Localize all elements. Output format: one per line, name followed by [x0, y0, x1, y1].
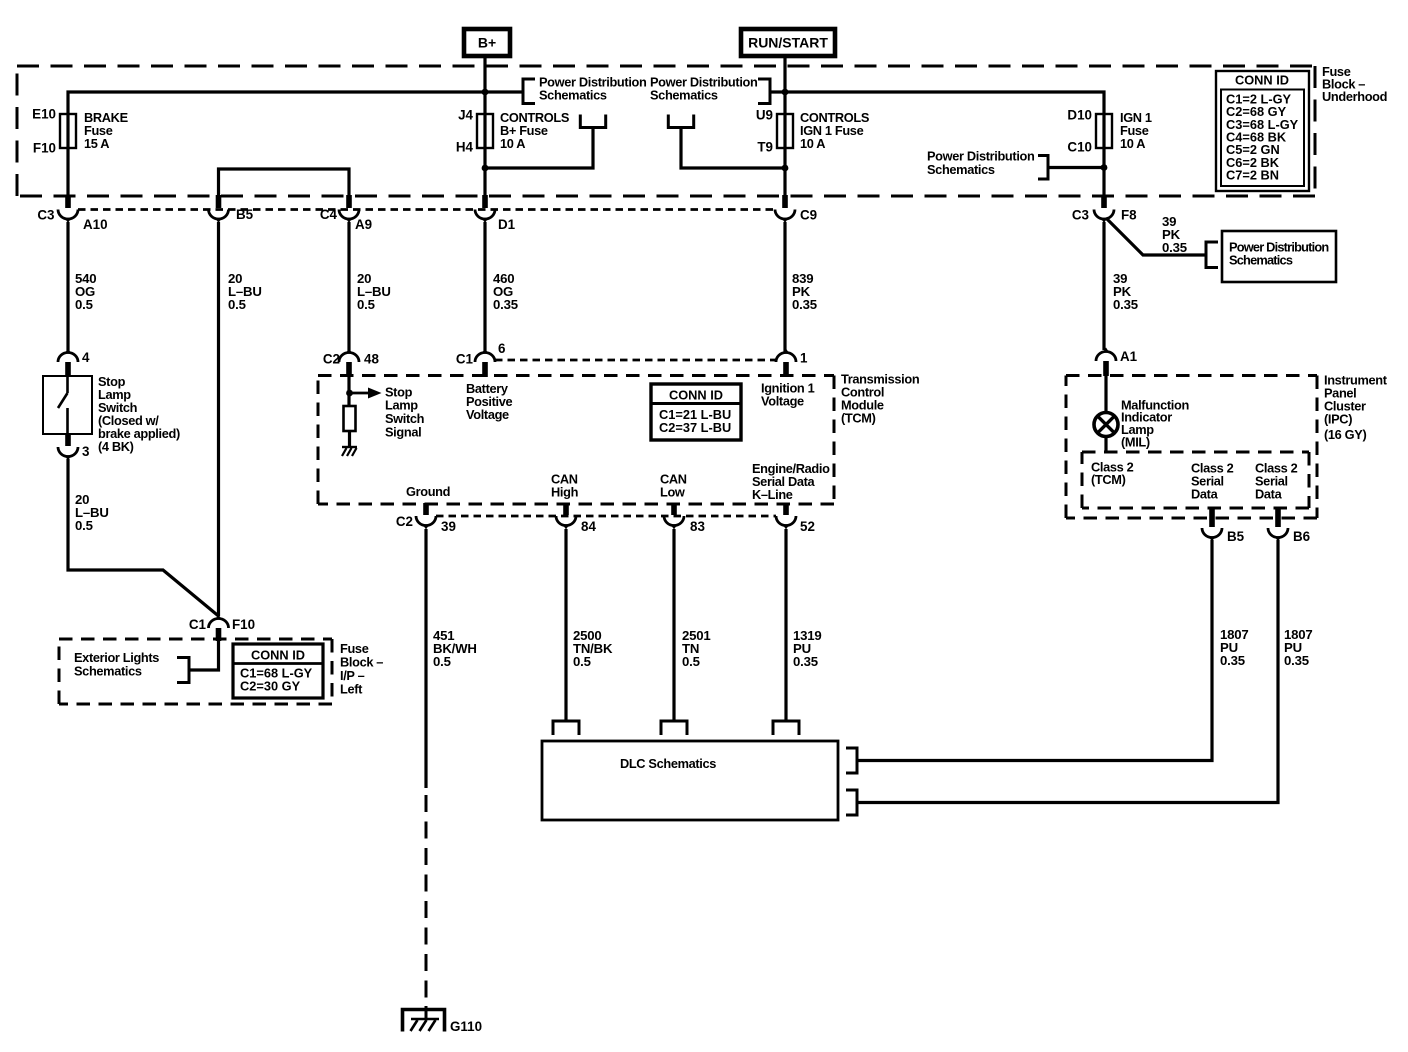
- fuse BRAKE 15A (E10/F10): [60, 114, 76, 148]
- wire branch F8 to power distribution: [1106, 218, 1206, 255]
- label 52: [800, 519, 815, 534]
- svg-text:0.35: 0.35: [1162, 240, 1187, 255]
- svg-text:DLC Schematics: DLC Schematics: [620, 756, 716, 771]
- wire F10 into block: [189, 641, 219, 670]
- svg-text:RUN/START: RUN/START: [748, 35, 828, 51]
- label C9: [800, 208, 817, 223]
- connector C1 pin 6: [475, 349, 495, 378]
- power symbol B+: [464, 29, 510, 56]
- connector pin B5: [1202, 507, 1222, 542]
- internal ground symbol: [342, 447, 357, 456]
- malfunction indicator lamp (MIL): [1094, 413, 1118, 437]
- label C4: [320, 207, 338, 222]
- bracket to Power Distribution Schematics (mid): [758, 79, 770, 104]
- label 48: [364, 352, 379, 367]
- wire D10 fuse to connector C3-F8: [1102, 114, 1105, 205]
- fork terminal CONTROLS IGN1: [668, 115, 693, 128]
- svg-text:C7=2 BN: C7=2 BN: [1226, 168, 1279, 183]
- label Stop Lamp Switch Signal: [385, 385, 425, 440]
- connector ID table (fuse block I/P): [233, 644, 323, 698]
- connector pin 83: [664, 503, 684, 530]
- ground G110 symbol: [403, 1006, 445, 1032]
- label F10: [33, 141, 56, 156]
- junction on B+ wire: [482, 165, 489, 172]
- svg-text:C4: C4: [320, 207, 338, 222]
- label Class 2 Serial Data (B6): [1255, 461, 1298, 502]
- svg-text:Data: Data: [1191, 487, 1219, 502]
- svg-text:G110: G110: [450, 1019, 482, 1034]
- svg-text:84: 84: [581, 519, 596, 534]
- bracket to Power Distribution Schematics (near D10): [1038, 156, 1048, 180]
- bracket DLC upper right: [846, 748, 857, 773]
- junction B+/brake feed: [482, 89, 489, 96]
- label 20 L-BU 0.5 (B5): [228, 271, 262, 312]
- wire IGN1 feed (RUN/START to D10): [771, 92, 1104, 114]
- label BRAKE Fuse 15A: [84, 110, 129, 151]
- svg-text:C1: C1: [456, 352, 474, 367]
- wire 39 PK (F8 down): [1102, 222, 1105, 350]
- svg-text:D10: D10: [1067, 108, 1092, 123]
- terminal staple K-line: [773, 721, 799, 735]
- svg-text:0.5: 0.5: [433, 654, 451, 669]
- svg-text:10 A: 10 A: [1120, 136, 1145, 151]
- label 6: [498, 341, 505, 356]
- label F10 (connector): [232, 617, 255, 632]
- label 20 L-BU 0.5 (A9): [357, 271, 391, 312]
- wire brake fuse to connector C3: [66, 114, 69, 205]
- bracket to Power Distribution Schematics box: [1206, 242, 1218, 268]
- svg-text:0.35: 0.35: [1220, 653, 1245, 668]
- svg-text:C3: C3: [37, 208, 54, 223]
- fuse CONTROLS IGN1 10A (U9/T9): [777, 114, 793, 148]
- svg-text:F10: F10: [33, 141, 56, 156]
- label A9: [355, 217, 372, 232]
- label C2 (48): [323, 352, 340, 367]
- svg-text:Signal: Signal: [385, 425, 421, 440]
- svg-text:0.5: 0.5: [573, 654, 591, 669]
- svg-text:0.5: 0.5: [357, 297, 375, 312]
- junction RUN/START/IGN1 feed: [782, 89, 789, 96]
- label Power Distribution Schematics (near D10): [927, 149, 1035, 178]
- wire RUN/START vertical: [783, 56, 786, 205]
- svg-text:A10: A10: [83, 217, 108, 232]
- label A10: [83, 217, 108, 232]
- wire bracket to D10 wire: [1048, 166, 1104, 169]
- connector pin 84: [556, 503, 576, 530]
- connector cavity D1: [475, 195, 495, 223]
- wire splice link B5 to A9: [219, 169, 350, 205]
- wire DLC to B5 (1807 PU): [857, 540, 1212, 761]
- label H4: [456, 140, 474, 155]
- label 1807 PU 0.35 (B6): [1284, 627, 1313, 668]
- label C1 (F10): [189, 617, 207, 632]
- svg-text:39: 39: [441, 519, 456, 534]
- bracket to Power Distribution Schematics (left): [523, 79, 535, 104]
- svg-text:4: 4: [82, 350, 90, 365]
- wire 20 L-BU (B5 down): [217, 222, 220, 616]
- label C3: [37, 208, 54, 223]
- label 20 L-BU 0.5 (switch): [75, 492, 109, 533]
- svg-text:C3: C3: [1072, 208, 1089, 223]
- svg-text:H4: H4: [456, 140, 474, 155]
- label CONTROLS B+ Fuse 10A: [500, 110, 570, 151]
- svg-text:Schematics: Schematics: [74, 664, 142, 679]
- connector cavity C9: [775, 195, 795, 223]
- label 1319 PU 0.35: [793, 628, 822, 669]
- terminal staple CAN low: [661, 721, 687, 735]
- svg-text:D1: D1: [498, 217, 516, 232]
- label D1: [498, 217, 516, 232]
- svg-text:0.35: 0.35: [793, 654, 818, 669]
- svg-text:C1: C1: [189, 617, 207, 632]
- label A1: [1120, 349, 1138, 364]
- label 39 PK 0.35 (down): [1113, 271, 1138, 312]
- label Transmission Control Module (TCM): [841, 372, 920, 426]
- svg-text:52: 52: [800, 519, 815, 534]
- box DLC Schematics: [542, 741, 838, 820]
- fuse CONTROLS B+ 10A (J4/H4): [477, 114, 493, 148]
- label C10: [1067, 140, 1092, 155]
- label B5: [236, 207, 254, 222]
- label 2501 TN 0.5: [682, 628, 711, 669]
- instrument panel cluster dashed box: [1066, 376, 1317, 519]
- wire 839 PK (C9 down): [783, 222, 786, 352]
- label F8: [1121, 208, 1137, 223]
- wire resistor to ground: [348, 431, 351, 447]
- connector cavity B5: [209, 195, 229, 223]
- svg-text:T9: T9: [757, 140, 773, 155]
- svg-text:U9: U9: [756, 108, 773, 123]
- wire fork to RUN/START wire: [681, 128, 785, 169]
- fuse IGN 1 10A (D10/C10): [1096, 114, 1112, 148]
- stop lamp switch box: [43, 376, 92, 434]
- label 39 PK 0.35 (branch): [1162, 214, 1187, 255]
- svg-text:CONN ID: CONN ID: [251, 648, 305, 663]
- label B5 (IPC): [1227, 529, 1245, 544]
- svg-text:B+: B+: [478, 35, 496, 51]
- label Class 2 (TCM): [1091, 460, 1134, 488]
- svg-text:C2: C2: [396, 514, 413, 529]
- svg-text:48: 48: [364, 352, 379, 367]
- label 1: [800, 351, 808, 366]
- label G110: [450, 1019, 482, 1034]
- label CONTROLS IGN 1 Fuse 10A: [800, 110, 870, 151]
- wire B+ vertical: [483, 56, 486, 205]
- svg-text:(IPC): (IPC): [1324, 412, 1352, 427]
- svg-text:K–Line: K–Line: [752, 487, 793, 502]
- label Engine/Radio Serial Data K-Line: [752, 461, 830, 502]
- connector pin 4: [58, 349, 78, 377]
- svg-text:Voltage: Voltage: [466, 407, 509, 422]
- connector pin 52: [776, 503, 796, 530]
- svg-text:Schematics: Schematics: [539, 88, 607, 103]
- resistor (TCM internal): [344, 406, 356, 431]
- connector ID table (TCM): [651, 384, 741, 440]
- svg-text:0.35: 0.35: [792, 297, 817, 312]
- svg-text:0.5: 0.5: [228, 297, 246, 312]
- label 1807 PU 0.35 (B5): [1220, 627, 1249, 668]
- svg-text:(TCM): (TCM): [841, 411, 876, 426]
- svg-text:C10: C10: [1067, 140, 1092, 155]
- label 839 PK 0.35: [792, 271, 817, 312]
- svg-text:0.35: 0.35: [1284, 653, 1309, 668]
- connector C3 cavity A10: [58, 195, 78, 223]
- TCM bottom rail (dotted): [436, 515, 776, 518]
- label E10: [32, 107, 56, 122]
- svg-text:A1: A1: [1120, 349, 1138, 364]
- svg-text:A9: A9: [355, 217, 372, 232]
- wire A1 to MIL lamp: [1104, 376, 1107, 413]
- svg-text:CONN ID: CONN ID: [669, 388, 723, 403]
- connector pin 3: [58, 434, 78, 461]
- fuse block underhood (dashed outline): [17, 66, 1315, 196]
- connector C2 pin 48: [339, 349, 359, 378]
- svg-text:C2=30 GY: C2=30 GY: [240, 679, 301, 694]
- label 4: [82, 350, 90, 365]
- label Ignition 1 Voltage: [761, 381, 815, 409]
- label Class 2 Serial Data (B5): [1191, 461, 1234, 502]
- connector ID table (fuse block underhood): [1216, 71, 1309, 191]
- svg-text:Ground: Ground: [406, 484, 450, 499]
- label U9: [756, 108, 773, 123]
- svg-text:C2=37 L-BU: C2=37 L-BU: [659, 420, 731, 435]
- svg-text:0.35: 0.35: [493, 297, 518, 312]
- svg-text:0.5: 0.5: [75, 518, 93, 533]
- label CAN High: [551, 472, 579, 500]
- label C1 (6): [456, 352, 474, 367]
- label CAN Low: [660, 472, 687, 500]
- svg-text:B5: B5: [236, 207, 254, 222]
- svg-text:CONN ID: CONN ID: [1235, 73, 1289, 88]
- box Power Distribution Schematics: [1222, 231, 1336, 282]
- label Malfunction Indicator Lamp (MIL): [1121, 398, 1189, 450]
- svg-text:C2: C2: [323, 352, 340, 367]
- connector C2 pin 39 (ground): [416, 503, 436, 530]
- junction on RUN/START wire: [782, 165, 789, 172]
- wire 451 BK/WH (ground): [424, 529, 427, 788]
- wire brake-fuse feed (horizontal from B+ to E10): [68, 92, 523, 114]
- svg-text:Schematics: Schematics: [927, 162, 995, 177]
- svg-text:Underhood: Underhood: [1322, 89, 1387, 104]
- power symbol RUN/START: [741, 29, 835, 56]
- fork terminal CONTROLS B+: [580, 115, 605, 128]
- arrow stop lamp signal: [350, 388, 382, 399]
- svg-text:B5: B5: [1227, 529, 1245, 544]
- label Ground: [406, 484, 450, 499]
- terminal staple CAN high: [553, 721, 579, 735]
- label J4: [458, 108, 473, 123]
- fuse block I/P dashed box: [59, 639, 332, 704]
- wire 20 L-BU (C4/A9 down): [347, 222, 350, 352]
- wire stop lamp signal internal: [347, 377, 350, 406]
- connector C1 cavity F10: [209, 615, 229, 642]
- label Battery Positive Voltage: [466, 381, 513, 422]
- wire 2500 TN/BK (CAN high): [564, 529, 567, 721]
- svg-text:0.5: 0.5: [75, 297, 93, 312]
- label 460 OG 0.35: [493, 271, 518, 312]
- label Power Distribution Schematics (mid): [650, 75, 758, 103]
- svg-text:J4: J4: [458, 108, 473, 123]
- svg-text:10 A: 10 A: [800, 136, 825, 151]
- label IGN 1 Fuse 10A: [1120, 110, 1152, 151]
- svg-text:(MIL): (MIL): [1121, 435, 1150, 450]
- svg-text:E10: E10: [32, 107, 56, 122]
- svg-text:Schematics: Schematics: [1229, 253, 1293, 268]
- label 84: [581, 519, 596, 534]
- label 451 BK/WH 0.5: [433, 628, 477, 669]
- TCM top rail (dotted): [495, 359, 776, 362]
- svg-text:High: High: [551, 485, 579, 500]
- svg-text:Data: Data: [1255, 487, 1283, 502]
- wire 20 L-BU switch output: [68, 459, 219, 616]
- svg-text:15 A: 15 A: [84, 136, 109, 151]
- svg-text:(4 BK): (4 BK): [98, 439, 134, 454]
- wire DLC to B6 (1807 PU): [857, 540, 1278, 803]
- label B6 (IPC): [1293, 529, 1310, 544]
- label 2500 TN/BK 0.5: [573, 628, 613, 669]
- connector pin 1: [776, 349, 796, 378]
- svg-text:0.35: 0.35: [1113, 297, 1138, 312]
- label T9: [757, 140, 773, 155]
- wire 460 OG (D1 down): [483, 222, 486, 352]
- class 2 internal dashed box: [1082, 452, 1309, 508]
- connector pin A1: [1096, 348, 1116, 377]
- svg-text:(16 GY): (16 GY): [1324, 427, 1366, 442]
- label Stop Lamp Switch (Closed w/ brake applied) (4 BK): [98, 374, 180, 454]
- wire fork to B+ wire: [485, 128, 593, 169]
- connector C3 cavity F8: [1094, 195, 1114, 223]
- svg-text:0.5: 0.5: [682, 654, 700, 669]
- label 3: [82, 444, 89, 459]
- svg-text:(TCM): (TCM): [1091, 472, 1126, 487]
- label C2 (39): [396, 514, 413, 529]
- wire 1319 PU (K-line): [784, 529, 787, 721]
- label 540 OG 0.5: [75, 271, 96, 312]
- connector rail (dotted) C3/A10 to C9: [78, 208, 775, 211]
- label C3 (F8): [1072, 208, 1089, 223]
- svg-text:6: 6: [498, 341, 505, 356]
- label Fuse Block Underhood: [1322, 64, 1387, 104]
- svg-text:83: 83: [690, 519, 705, 534]
- bracket to Exterior Lights Schematics: [177, 658, 189, 683]
- transmission control module dashed box: [318, 376, 834, 505]
- svg-text:F8: F8: [1121, 208, 1137, 223]
- wire lamp to class 2 module: [1104, 436, 1107, 452]
- svg-text:Left: Left: [340, 682, 363, 697]
- wire 451 dashed continuation to G110: [425, 795, 428, 1006]
- junction on D10 wire: [1101, 164, 1108, 171]
- svg-text:1: 1: [800, 351, 808, 366]
- wire 2501 TN (CAN low): [672, 529, 675, 721]
- junction stop lamp signal: [346, 390, 353, 397]
- label 39: [441, 519, 456, 534]
- wire 540 OG (C3/A10 down): [66, 222, 69, 352]
- connector C4 cavity A9: [339, 195, 359, 223]
- label Exterior Lights Schematics: [74, 650, 159, 679]
- svg-text:3: 3: [82, 444, 89, 459]
- label 83: [690, 519, 705, 534]
- label Power Distribution Schematics (left): [539, 75, 647, 103]
- bracket DLC lower right: [846, 790, 857, 815]
- switch contact: [58, 376, 68, 434]
- svg-text:C9: C9: [800, 208, 817, 223]
- label Instrument Panel Cluster (IPC) (16 GY): [1324, 373, 1388, 443]
- label D10: [1067, 108, 1092, 123]
- svg-text:B6: B6: [1293, 529, 1310, 544]
- label Fuse Block I/P Left: [340, 641, 383, 697]
- svg-text:Low: Low: [660, 485, 685, 500]
- svg-text:Schematics: Schematics: [650, 88, 718, 103]
- svg-text:10 A: 10 A: [500, 136, 525, 151]
- svg-text:F10: F10: [232, 617, 255, 632]
- connector pin B6: [1268, 507, 1288, 542]
- svg-text:Voltage: Voltage: [761, 394, 804, 409]
